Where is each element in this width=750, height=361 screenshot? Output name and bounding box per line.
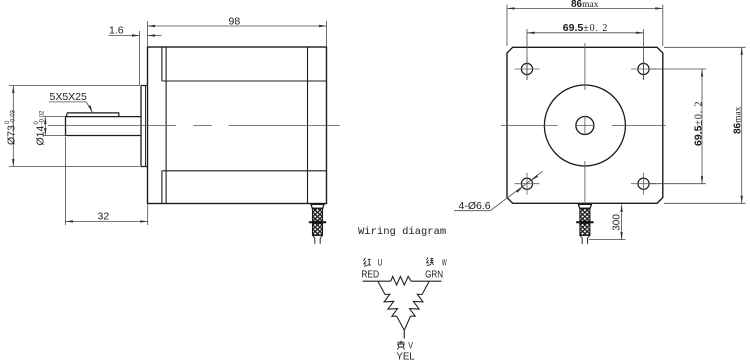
label 4-O6.6 leader: [490, 171, 543, 211]
svg-text:RED: RED: [361, 269, 379, 281]
winding W-V (right resistor): [410, 294, 423, 316]
wire winding to node V (left): [397, 316, 405, 330]
dim O73 extension bottom: [9, 166, 140, 168]
svg-text:69.5±0. 2: 69.5±0. 2: [563, 22, 608, 34]
dim 69.5 top extensions: [527, 29, 644, 80]
leader arrow lower-left: [516, 187, 523, 193]
dim O73 line: [12, 86, 14, 167]
winding U-V (left resistor): [384, 294, 397, 316]
dim O14 arrow top: [44, 117, 46, 125]
dim 86max right label: [733, 106, 744, 134]
svg-text:86max: 86max: [733, 106, 744, 134]
centerline left view: [48, 125, 340, 127]
svg-text:Ø73: Ø73: [6, 125, 18, 145]
dim 32 arrow right: [140, 220, 148, 222]
dim 69.5 top line: [527, 32, 644, 34]
svg-text:86max: 86max: [571, 0, 599, 10]
dim O73 extension top: [9, 85, 140, 87]
dim 300 label: [612, 214, 623, 231]
wire lead U (left): [363, 280, 391, 282]
dim 69.5 top arrow right: [636, 32, 644, 34]
svg-text:YEL: YEL: [396, 350, 414, 361]
dim 32 extension right: [147, 204, 149, 225]
shaft: [66, 117, 142, 136]
dim O14 line: [44, 117, 46, 136]
dim 86max top line: [507, 7, 663, 9]
dim 86max right arrow top: [741, 47, 743, 55]
dim 98 extension lines: [148, 21, 327, 46]
left view cable: [309, 204, 326, 244]
right view cable: [576, 204, 593, 244]
dim 1.6 extension line: [139, 31, 141, 85]
dim O73 arrow bottom: [12, 159, 14, 167]
leader arrow upper-right: [532, 175, 539, 181]
dim 69.5 right extensions: [650, 69, 707, 184]
svg-text:1.6: 1.6: [109, 25, 124, 37]
bolt hole top-left: [521, 63, 532, 74]
bolt hole bottom-right: [638, 178, 649, 189]
vertical centerline right view: [584, 43, 586, 205]
key label underline: [49, 101, 86, 103]
wire lead W (right): [411, 280, 441, 282]
label hong (red CJK): [364, 258, 371, 266]
svg-text:GRN: GRN: [425, 269, 443, 281]
dim 32 arrow left: [66, 220, 74, 222]
dim 300 arrow top: [620, 205, 622, 213]
mounting flange square: [507, 47, 663, 203]
body chamfer silhouette line bottom: [162, 170, 327, 172]
key label leader: [86, 102, 92, 113]
pilot boss (O73): [141, 86, 148, 167]
svg-text:4-Ø6.6: 4-Ø6.6: [459, 200, 491, 212]
dim O14 arrow bottom: [44, 128, 46, 136]
dim 69.5 right line: [701, 69, 703, 184]
svg-text:-0.02: -0.02: [39, 110, 45, 124]
svg-text:98: 98: [229, 15, 241, 27]
bolt hole bottom-right crosshair: [631, 173, 656, 195]
svg-text:-0.03: -0.03: [10, 109, 16, 123]
dim 98 line: [148, 25, 327, 27]
dim 98 arrow right: [319, 25, 327, 27]
dim 69.5 right arrow top: [701, 69, 703, 77]
dim 32 extension left: [65, 137, 67, 225]
dim O14 extension top: [44, 116, 66, 118]
dim 32 line: [66, 220, 148, 222]
rear end-cap line: [307, 47, 309, 204]
dim 86max top arrow left: [507, 7, 515, 9]
front end-cap line 1 (visible above/below chamfer silhouette): [161, 47, 163, 204]
bolt hole bottom-left crosshair: [515, 173, 540, 195]
boss inner line: [145, 86, 147, 167]
dim 98 arrow left: [148, 25, 156, 27]
bolt hole top-left crosshair: [515, 58, 540, 80]
dim 86max right line: [741, 47, 743, 203]
svg-text:300: 300: [612, 214, 623, 231]
svg-text:W: W: [442, 257, 447, 267]
dim 86max right arrow bottom: [741, 196, 743, 204]
svg-text:Ø14: Ø14: [35, 125, 47, 145]
dim O73 label: [5, 109, 18, 145]
dim 300 arrow bottom: [620, 232, 622, 240]
bolt hole bottom-left: [521, 178, 532, 189]
dim 1.6 leader left: [109, 35, 140, 37]
dim O73 arrow top: [12, 86, 14, 94]
dim 69.5 right arrow bottom: [701, 176, 703, 184]
shaft circle O14: [576, 117, 594, 135]
label 4-O6.6 underline: [454, 210, 490, 212]
wire node W to winding: [422, 281, 429, 294]
dim O14 label: [34, 110, 47, 146]
dim 1.6 line right: [148, 35, 162, 37]
shaft key (5X5X25): [66, 113, 119, 117]
label huang (yellow CJK): [397, 341, 405, 350]
dim 86max right extensions: [664, 47, 746, 203]
svg-text:69.5±0. 2: 69.5±0. 2: [693, 101, 705, 146]
label lv (green CJK): [426, 257, 433, 265]
dim 69.5 right label: [693, 101, 705, 146]
front end-cap line 2: [165, 47, 167, 204]
body chamfer silhouette line top: [162, 80, 327, 82]
dim 86max top extensions: [507, 5, 663, 47]
svg-text:Wiring diagram: Wiring diagram: [358, 226, 446, 238]
wire winding to node V (right): [404, 316, 410, 330]
dim 300 extension bottom: [589, 239, 626, 241]
key leader arrow: [88, 105, 92, 112]
svg-text:32: 32: [98, 211, 110, 223]
dim 69.5 top arrow left: [527, 32, 535, 34]
pilot boss circle O73: [544, 85, 625, 166]
dim O14 extension bottom: [44, 135, 66, 137]
svg-text:5X5X25: 5X5X25: [50, 91, 88, 103]
wire node U to winding: [378, 281, 385, 294]
dim 86max top arrow right: [655, 7, 663, 9]
dim 1.6 arrow right: [148, 34, 156, 36]
motor body outline: [148, 47, 327, 204]
dim 1.6 arrow left: [132, 34, 140, 36]
wire lead V (bottom): [403, 330, 405, 338]
svg-text:U: U: [378, 257, 383, 267]
bolt hole top-right crosshair: [631, 58, 656, 80]
shaft circle crosshair: [575, 116, 594, 135]
bolt hole top-right: [638, 63, 649, 74]
winding U-W (top resistor): [391, 276, 411, 285]
horizontal centerline right view: [501, 125, 666, 127]
dim 300 line: [621, 205, 623, 240]
svg-text:V: V: [408, 341, 413, 351]
